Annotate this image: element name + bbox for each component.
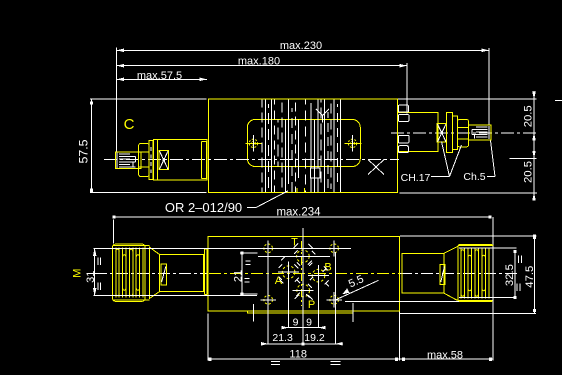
svg-text:P: P (308, 299, 315, 311)
left solenoid tube (158, 140, 207, 181)
extension line x489 (488, 48, 490, 125)
construction line top bolt row (94, 247, 352, 249)
svg-text:OR 2–012/90: OR 2–012/90 (165, 200, 242, 215)
svg-text:9: 9 (293, 317, 299, 329)
right knurled knob (458, 244, 493, 301)
left cone (150, 248, 160, 299)
dimension 32.5 (504, 250, 521, 299)
valve body (bottom view) (208, 237, 399, 312)
inner rounded rectangle (mounting face) (247, 119, 360, 166)
thread dashes around ports (279, 243, 329, 299)
svg-text:max.58: max.58 (427, 349, 463, 361)
left cylinder (160, 255, 204, 292)
right seal box with X (437, 124, 446, 143)
left interface plate (202, 142, 207, 179)
dimension 47.5 (399, 235, 536, 314)
construction line left knob bottom (94, 295, 258, 297)
spool section stripes left band (262, 100, 299, 193)
svg-text:20.5: 20.5 (523, 105, 535, 127)
step line lower (247, 311, 353, 313)
port A (275, 266, 299, 287)
right end plate (399, 254, 402, 294)
port B (308, 261, 332, 282)
left seal box with X (159, 151, 168, 170)
groove ticks bottom edge (296, 188, 298, 192)
port P (293, 284, 315, 311)
spool section stripes right band (306, 100, 341, 193)
svg-text:57.5: 57.5 (77, 139, 91, 163)
svg-text:9: 9 (306, 317, 312, 329)
dimension 21 (232, 252, 257, 296)
equality marks below 118 (271, 361, 341, 364)
left knob ring (145, 247, 150, 300)
right flange 2 (452, 116, 457, 150)
port T (258, 237, 330, 263)
dimension max.180 (117, 56, 408, 68)
dimension max.230 (117, 40, 490, 52)
knob centerline left (95, 272, 207, 274)
hole right crosshair (345, 135, 362, 152)
right cylinder (402, 253, 444, 293)
svg-text:19.2: 19.2 (304, 332, 325, 344)
label CH.17 with leader (401, 142, 462, 185)
hole left crosshair (245, 135, 262, 152)
right 20.5 dimensions (398, 91, 562, 201)
dimension max.234 (113, 207, 493, 246)
port vertical centerline (301, 241, 303, 306)
stray vertical ticks (253, 304, 255, 322)
dimension max.58 (399, 246, 493, 361)
left hex nut (139, 143, 149, 176)
orifice line and square (311, 120, 321, 192)
left knurled knob (113, 244, 150, 301)
centerline right axis (391, 132, 536, 134)
bolt hole BR (326, 292, 342, 308)
dimension 118 (208, 312, 400, 361)
centerline left axis (104, 159, 399, 161)
svg-text:CH.17: CH.17 (401, 172, 431, 184)
valve body (top view) (209, 99, 398, 192)
knob centerline right (400, 272, 520, 274)
dimension max.57.5 (117, 70, 208, 82)
dimension 21.3 / 19.2 (261, 332, 343, 345)
right castellated adapter (white spring washers) (398, 105, 409, 153)
label Ch.5 with leader (463, 141, 495, 184)
leader 5.5 (335, 273, 379, 300)
svg-text:max.57.5: max.57.5 (137, 70, 182, 82)
OR 2-012/90 label and leader (165, 191, 288, 215)
right lock detail (440, 264, 445, 284)
X mark (368, 160, 384, 175)
right threaded stud (469, 125, 491, 140)
dimension M 31 (72, 248, 101, 295)
construction line bottom right (345, 300, 459, 302)
svg-text:47.5: 47.5 (524, 266, 536, 288)
extension line x407 (406, 63, 408, 113)
svg-text:M: M (72, 269, 84, 278)
svg-text:21.3: 21.3 (272, 332, 293, 344)
svg-text:32.5: 32.5 (504, 264, 516, 286)
svg-text:C: C (124, 116, 135, 133)
bolt hole BL (260, 292, 276, 308)
extension lines below body (268, 228, 335, 344)
left washer 2 (153, 140, 157, 181)
construction line right knob bottom (459, 296, 517, 298)
bolt hole TL (264, 241, 273, 257)
left end plate (204, 249, 207, 295)
washer centerline dashes (150, 147, 152, 173)
svg-text:Ch.5: Ch.5 (463, 171, 485, 183)
body centerline horizontal (209, 272, 399, 274)
extension line left x116.5 (116, 48, 118, 152)
dimension 9 9 (281, 317, 325, 330)
left solenoid threaded stud (116, 152, 141, 169)
bolt hole TR (330, 241, 339, 257)
Y mark (316, 109, 329, 123)
left lock detail (161, 264, 167, 285)
svg-text:118: 118 (289, 348, 307, 360)
right small cylinder (397, 112, 438, 151)
left washer 1 (149, 140, 153, 179)
right flange 1 (446, 112, 452, 152)
right cone (444, 246, 458, 300)
svg-text:20.5: 20.5 (523, 161, 535, 183)
construction line right knob top (459, 247, 517, 249)
right hex nut (457, 120, 468, 147)
dimension 57.5 vertical (77, 99, 207, 192)
